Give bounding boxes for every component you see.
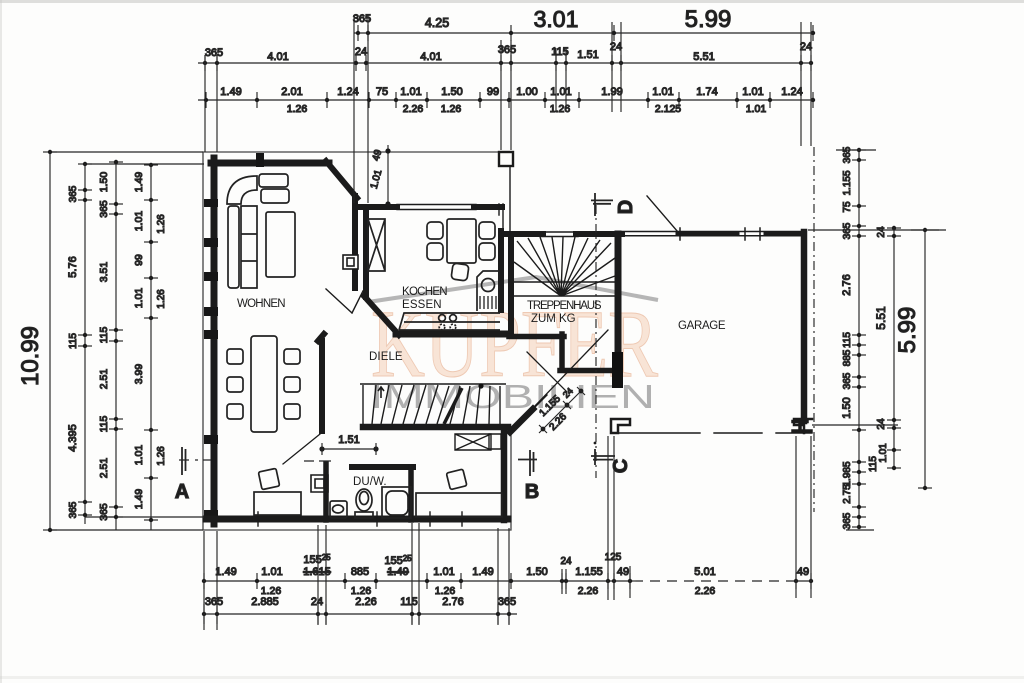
sofa left back bbox=[228, 206, 239, 288]
svg-text:99: 99 bbox=[487, 86, 499, 98]
svg-text:24: 24 bbox=[560, 556, 572, 567]
right dim line 1 bbox=[858, 148, 860, 528]
svg-text:115: 115 bbox=[842, 332, 853, 348]
svg-text:DU/W.: DU/W. bbox=[353, 476, 387, 488]
left dim line 2 bbox=[84, 163, 86, 524]
kitchen table bbox=[447, 219, 476, 263]
top extension lines bbox=[353, 15, 355, 203]
sofa corner bbox=[227, 176, 257, 204]
svg-text:1.155: 1.155 bbox=[842, 170, 853, 195]
svg-text:1.49: 1.49 bbox=[472, 566, 493, 578]
cooktop bbox=[439, 315, 446, 322]
sofa left cushions bbox=[241, 206, 257, 288]
svg-text:1.01: 1.01 bbox=[133, 445, 145, 466]
wall right kitchen bbox=[499, 204, 503, 233]
right dim line 2 bbox=[893, 226, 895, 470]
svg-text:1.26: 1.26 bbox=[287, 103, 308, 115]
section marker C bbox=[591, 449, 615, 465]
svg-text:1.26: 1.26 bbox=[156, 214, 167, 234]
sofa top cushions bbox=[259, 174, 288, 187]
svg-text:1.49: 1.49 bbox=[133, 489, 145, 510]
wall right du-wc bbox=[408, 467, 414, 520]
svg-text:1.01: 1.01 bbox=[400, 86, 421, 98]
svg-text:365: 365 bbox=[98, 200, 110, 218]
entry step lines bbox=[489, 434, 501, 449]
diagonal dim at entry bbox=[539, 391, 581, 433]
garage door pillar left bbox=[611, 419, 630, 433]
section marker D bbox=[595, 205, 597, 478]
left dim line 10.99 bbox=[49, 152, 51, 530]
bottom dim line 2 bbox=[204, 613, 517, 615]
top dim line 2 bbox=[198, 62, 812, 64]
svg-text:2.26: 2.26 bbox=[695, 585, 716, 597]
svg-text:1.26: 1.26 bbox=[550, 103, 571, 115]
wall left kitchen bbox=[363, 210, 369, 297]
shower bbox=[382, 487, 411, 518]
svg-text:75: 75 bbox=[376, 86, 388, 98]
wall top du-wc bbox=[352, 464, 413, 470]
svg-text:115: 115 bbox=[400, 596, 418, 608]
svg-text:5.76: 5.76 bbox=[67, 256, 79, 277]
svg-text:1.26: 1.26 bbox=[441, 103, 462, 115]
wall left exterior bbox=[211, 158, 218, 524]
left dim line 4 chain bbox=[150, 163, 152, 530]
svg-text:885: 885 bbox=[842, 349, 853, 366]
svg-text:2.76: 2.76 bbox=[442, 596, 463, 608]
wall treppenhaus-garage bbox=[615, 234, 622, 358]
svg-text:5.51: 5.51 bbox=[693, 51, 714, 63]
right dash-dot section line bbox=[813, 147, 815, 512]
staircase dot bbox=[478, 383, 483, 388]
bottom dim line 1 bbox=[204, 580, 633, 582]
svg-text:1.24: 1.24 bbox=[781, 86, 802, 98]
section marker B bbox=[518, 450, 537, 476]
svg-text:5.01: 5.01 bbox=[694, 566, 715, 578]
svg-text:1.50: 1.50 bbox=[841, 397, 853, 418]
top dim line 3 chain bbox=[198, 99, 813, 101]
svg-text:49: 49 bbox=[797, 566, 809, 578]
small dim 1.01 49 at kitchen top bbox=[387, 145, 389, 206]
corner post top of treppenhaus bbox=[499, 152, 513, 166]
svg-text:2.01: 2.01 bbox=[281, 86, 302, 98]
section marker A bbox=[179, 459, 211, 461]
svg-text:1.01: 1.01 bbox=[746, 103, 767, 115]
door swings at entry / treppenhaus bbox=[527, 330, 608, 408]
tilted stool lower right room bbox=[446, 469, 467, 490]
svg-text:24: 24 bbox=[355, 46, 367, 58]
wall stepped below treppenhaus bbox=[509, 334, 611, 371]
svg-text:TREPPENHAUS: TREPPENHAUS bbox=[527, 300, 602, 312]
svg-text:115: 115 bbox=[98, 326, 110, 343]
svg-text:1.49: 1.49 bbox=[133, 172, 145, 193]
svg-text:24: 24 bbox=[876, 226, 887, 238]
watermark roof line bbox=[368, 277, 658, 302]
svg-text:365: 365 bbox=[205, 47, 223, 59]
wall top garage bbox=[622, 232, 802, 236]
wall diagonal top-right living room bbox=[326, 161, 357, 198]
svg-text:1.50: 1.50 bbox=[98, 172, 110, 193]
svg-text:1.01: 1.01 bbox=[433, 566, 454, 578]
wall bottom kitchen bbox=[396, 331, 506, 338]
svg-text:1.01: 1.01 bbox=[742, 86, 763, 98]
svg-text:A: A bbox=[175, 481, 189, 503]
svg-text:49: 49 bbox=[617, 566, 629, 578]
wall top kitchen bbox=[355, 204, 397, 210]
svg-text:4.01: 4.01 bbox=[420, 51, 441, 63]
door swing diele to lower room bbox=[283, 434, 320, 464]
svg-text:5.51: 5.51 bbox=[874, 306, 888, 330]
svg-text:115: 115 bbox=[68, 333, 79, 349]
opening and box below middle wall bbox=[311, 475, 328, 492]
svg-text:C: C bbox=[610, 459, 632, 473]
svg-text:2.26: 2.26 bbox=[578, 585, 599, 597]
svg-text:365: 365 bbox=[98, 503, 110, 521]
svg-text:WOHNEN: WOHNEN bbox=[237, 298, 286, 310]
wc center bbox=[356, 489, 372, 511]
svg-text:4.01: 4.01 bbox=[267, 51, 288, 63]
staircase to UG treads bbox=[360, 384, 506, 424]
svg-text:365: 365 bbox=[842, 372, 853, 389]
wall left treppenhaus bbox=[508, 234, 514, 334]
svg-text:1.49: 1.49 bbox=[220, 86, 241, 98]
svg-text:4.25: 4.25 bbox=[425, 16, 449, 30]
svg-text:365: 365 bbox=[68, 185, 79, 202]
wall left du-wc bbox=[323, 464, 329, 520]
garage bottom-right step bbox=[793, 421, 811, 431]
svg-text:KOCHEN: KOCHEN bbox=[402, 286, 448, 298]
svg-text:4.395: 4.395 bbox=[67, 424, 79, 452]
svg-text:24: 24 bbox=[876, 418, 887, 430]
svg-text:3.01: 3.01 bbox=[534, 6, 579, 32]
svg-text:ZUM KG: ZUM KG bbox=[531, 313, 576, 325]
door swing into garage bbox=[647, 196, 678, 232]
top dim line 1 bbox=[354, 32, 813, 34]
svg-text:125: 125 bbox=[605, 552, 622, 563]
svg-text:5.99: 5.99 bbox=[894, 307, 921, 354]
garage door sill line bbox=[612, 432, 812, 434]
svg-text:365: 365 bbox=[842, 146, 853, 163]
svg-text:1.26: 1.26 bbox=[156, 289, 167, 309]
svg-text:2.885: 2.885 bbox=[251, 596, 279, 608]
stairs bottom wall bbox=[363, 424, 508, 431]
svg-text:115: 115 bbox=[98, 415, 110, 432]
coffee table bbox=[266, 212, 295, 277]
wall right garage bbox=[801, 232, 808, 421]
svg-text:2.75: 2.75 bbox=[842, 484, 853, 504]
pier on top wall bbox=[256, 153, 264, 167]
kitchen counter bbox=[399, 313, 500, 330]
scan noise edges bbox=[0, 0, 1024, 3]
svg-text:ESSEN: ESSEN bbox=[402, 299, 442, 311]
svg-text:1.49: 1.49 bbox=[215, 566, 236, 578]
svg-text:1.01: 1.01 bbox=[133, 211, 145, 232]
svg-text:1.00: 1.00 bbox=[516, 86, 537, 98]
svg-text:2.125: 2.125 bbox=[655, 103, 681, 115]
dining chairs left bbox=[227, 349, 243, 364]
svg-text:99: 99 bbox=[133, 254, 145, 266]
wall top living room bbox=[211, 160, 329, 167]
dining chairs right bbox=[284, 349, 300, 364]
svg-text:365: 365 bbox=[68, 501, 79, 518]
desk living bbox=[254, 492, 301, 515]
svg-text:GARAGE: GARAGE bbox=[678, 320, 726, 332]
svg-text:1.50: 1.50 bbox=[441, 86, 462, 98]
crossed shaft box below stairs bbox=[455, 434, 491, 450]
kitchen chimney shaft bbox=[368, 219, 385, 271]
svg-text:2.26: 2.26 bbox=[403, 103, 424, 115]
svg-text:1.74: 1.74 bbox=[696, 86, 717, 98]
right connectors bbox=[836, 149, 876, 151]
washbasin left bbox=[330, 501, 347, 518]
svg-text:1.01: 1.01 bbox=[652, 86, 673, 98]
svg-text:1.50: 1.50 bbox=[526, 566, 547, 578]
pier ticks on bottom wall bbox=[258, 512, 462, 526]
sideboard lower right room bbox=[416, 493, 502, 517]
wall angled entry bbox=[510, 409, 533, 432]
kitchen sink unit bbox=[477, 271, 499, 311]
wall right house lower bbox=[501, 430, 508, 520]
svg-text:24: 24 bbox=[800, 41, 812, 53]
svg-text:365: 365 bbox=[842, 222, 853, 239]
svg-text:365: 365 bbox=[205, 596, 223, 608]
wall right living room upper bbox=[352, 196, 358, 288]
svg-text:1.155: 1.155 bbox=[575, 566, 603, 578]
svg-text:1.01: 1.01 bbox=[878, 443, 889, 463]
door swing living to diele bbox=[326, 289, 363, 313]
svg-text:1.24: 1.24 bbox=[337, 86, 358, 98]
window piers on left wall bbox=[204, 199, 218, 519]
left dim line 3 bbox=[115, 160, 117, 530]
dining table bbox=[251, 336, 277, 432]
wall chamfer kitchen to diele bbox=[364, 296, 399, 335]
svg-text:2.26: 2.26 bbox=[355, 596, 376, 608]
svg-text:885: 885 bbox=[351, 566, 369, 578]
svg-text:B: B bbox=[525, 481, 539, 503]
treppenhaus winder fan bbox=[514, 237, 615, 296]
svg-text:24: 24 bbox=[311, 596, 323, 608]
svg-text:1.01: 1.01 bbox=[133, 288, 145, 309]
tilted stool living bbox=[258, 468, 279, 489]
right dim line 3 5.99 bbox=[924, 230, 926, 488]
staircase bold diagonal bbox=[444, 388, 462, 424]
svg-text:1.26: 1.26 bbox=[156, 446, 167, 466]
svg-text:1.01: 1.01 bbox=[550, 86, 571, 98]
svg-text:2.51: 2.51 bbox=[98, 458, 110, 479]
svg-text:1.51: 1.51 bbox=[577, 49, 598, 61]
svg-text:10.99: 10.99 bbox=[17, 326, 44, 386]
svg-text:1.49: 1.49 bbox=[387, 566, 408, 578]
svg-text:DIELE: DIELE bbox=[369, 351, 403, 363]
svg-text:75: 75 bbox=[842, 201, 853, 213]
kitchen chairs bbox=[427, 222, 443, 239]
svg-text:1.615: 1.615 bbox=[303, 566, 331, 578]
bottom extension lines bbox=[203, 531, 205, 630]
treppenhaus landing lines bbox=[514, 282, 615, 296]
eaves outline thin bbox=[203, 152, 512, 530]
svg-text:5.99: 5.99 bbox=[685, 6, 732, 33]
svg-text:365: 365 bbox=[842, 512, 853, 529]
svg-text:2.76: 2.76 bbox=[841, 274, 853, 295]
svg-text:D: D bbox=[615, 200, 637, 214]
staircase arrow bbox=[378, 387, 384, 398]
wall bottom house bbox=[206, 516, 508, 523]
wall top treppenhaus bbox=[505, 231, 543, 237]
svg-text:115: 115 bbox=[868, 456, 879, 472]
svg-text:1.985: 1.985 bbox=[842, 461, 853, 486]
electrical box on living wall bbox=[343, 255, 358, 269]
garage door pillar right bbox=[794, 419, 812, 433]
svg-text:1.51: 1.51 bbox=[338, 434, 359, 446]
svg-text:3.99: 3.99 bbox=[133, 364, 145, 385]
svg-text:365: 365 bbox=[498, 596, 516, 608]
svg-text:3.51: 3.51 bbox=[98, 262, 110, 283]
svg-text:2.51: 2.51 bbox=[98, 369, 110, 390]
svg-text:1.01: 1.01 bbox=[261, 566, 282, 578]
black wall fill at garage wall base bbox=[612, 352, 623, 388]
dim 1.51 diele bbox=[322, 448, 376, 450]
wall middle living-diele bbox=[318, 334, 324, 431]
